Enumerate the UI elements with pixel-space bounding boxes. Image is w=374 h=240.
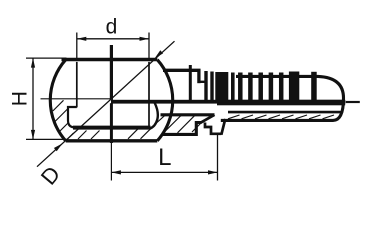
axis centerline left segment	[41, 98, 112, 100]
hatching left ring	[53, 100, 74, 140]
groove after collar	[199, 81, 205, 83]
hatching neck region	[157, 115, 203, 133]
collar top line	[163, 69, 201, 72]
collar step bar	[197, 69, 200, 83]
dimension d line	[77, 38, 149, 40]
eye vertical centerline / drill end / L extension	[110, 45, 113, 100]
collar divider	[189, 65, 192, 102]
bolt hole right edge	[148, 62, 150, 126]
hatching below pocket	[78, 128, 151, 139]
axis centerline right stub	[346, 101, 360, 103]
dimension H line	[32, 58, 34, 139]
serration bars group B	[238, 72, 317, 101]
banjo eye bottom flat	[66, 139, 158, 142]
bolt hole left edge	[76, 62, 78, 108]
neck bottom line + step up	[162, 123, 201, 135]
arrowheads	[77, 37, 87, 41]
socket inner line	[228, 111, 341, 114]
shoulder line	[161, 113, 215, 116]
serration bars group A	[204, 71, 234, 103]
dimension L extension right	[217, 135, 219, 181]
pocket bottom	[73, 126, 151, 130]
svg-text:H: H	[8, 91, 31, 106]
svg-text:d: d	[106, 15, 118, 38]
dimension D diagonal	[37, 41, 175, 167]
bore band in eye	[111, 100, 345, 104]
banjo eye left arc	[50, 60, 65, 141]
svg-text:L: L	[158, 144, 171, 171]
hatching tail socket wall	[228, 115, 334, 119]
socket skirt staircase	[205, 123, 221, 134]
dimension L line	[111, 171, 217, 173]
banjo eye top flat	[62, 58, 158, 62]
bore band in tail	[217, 100, 345, 106]
dimension d extension lines	[76, 33, 78, 60]
hose tail tube outline with rounded nose	[221, 76, 344, 120]
pocket right cone	[150, 103, 158, 129]
socket bell rise	[221, 119, 225, 135]
banjo eye right arc	[157, 60, 172, 141]
slant up to shoulder	[201, 115, 215, 123]
counterbore pocket left shelf + wall	[68, 107, 77, 127]
dimension H extension lines	[26, 57, 67, 59]
